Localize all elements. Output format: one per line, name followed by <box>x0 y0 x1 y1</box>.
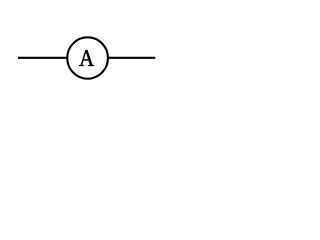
meter circle <box>67 37 108 78</box>
wire right <box>109 57 156 59</box>
ammeter meter symbol <box>0 0 190 108</box>
wire left <box>18 57 67 59</box>
label A <box>79 50 94 66</box>
